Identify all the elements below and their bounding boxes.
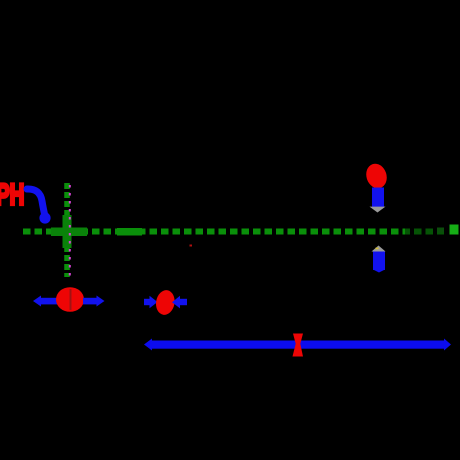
faint dash before axis end xyxy=(437,228,444,233)
blue upward force arrow shaft (below axis) xyxy=(373,252,385,271)
lens plane: vertical green dashed line xyxy=(64,183,70,277)
compressed blob: right blue arrow (inward) xyxy=(172,296,187,309)
stretched blob: right blue arrow (outward) xyxy=(83,296,105,307)
label PH (red text, clipped at left edge) xyxy=(0,179,24,212)
red particle above axis (right group) xyxy=(363,161,390,191)
compressed blob: red body xyxy=(154,289,176,317)
optical axis: horizontal green dashed line xyxy=(23,229,444,235)
stretched blob: left blue arrow (outward) xyxy=(33,296,58,307)
magenta dotted line on lens plane xyxy=(69,185,71,276)
detector bar: long blue horizontal line xyxy=(150,341,446,349)
stretched blob: red body xyxy=(56,287,84,312)
gray arrowhead pointing up to axis (below) xyxy=(372,246,386,252)
tiny red speck below axis xyxy=(190,245,193,247)
axis arrowhead / end label xyxy=(450,225,459,235)
long dash segment on axis xyxy=(117,228,142,236)
dimming of axis dashes near right end xyxy=(405,223,446,241)
compressed blob: left blue arrow (inward) xyxy=(144,296,158,308)
red marker (bowtie) on detector bar xyxy=(293,334,304,357)
crossing point thick plus xyxy=(51,215,87,248)
blue curved annotation arrow xyxy=(27,189,45,216)
blue downward force arrow shaft (above axis) xyxy=(372,188,384,208)
svg-text:PH: PH xyxy=(0,179,24,212)
yellow speck on lower arrowhead xyxy=(376,248,379,250)
gray arrowhead pointing down to axis xyxy=(370,207,386,213)
